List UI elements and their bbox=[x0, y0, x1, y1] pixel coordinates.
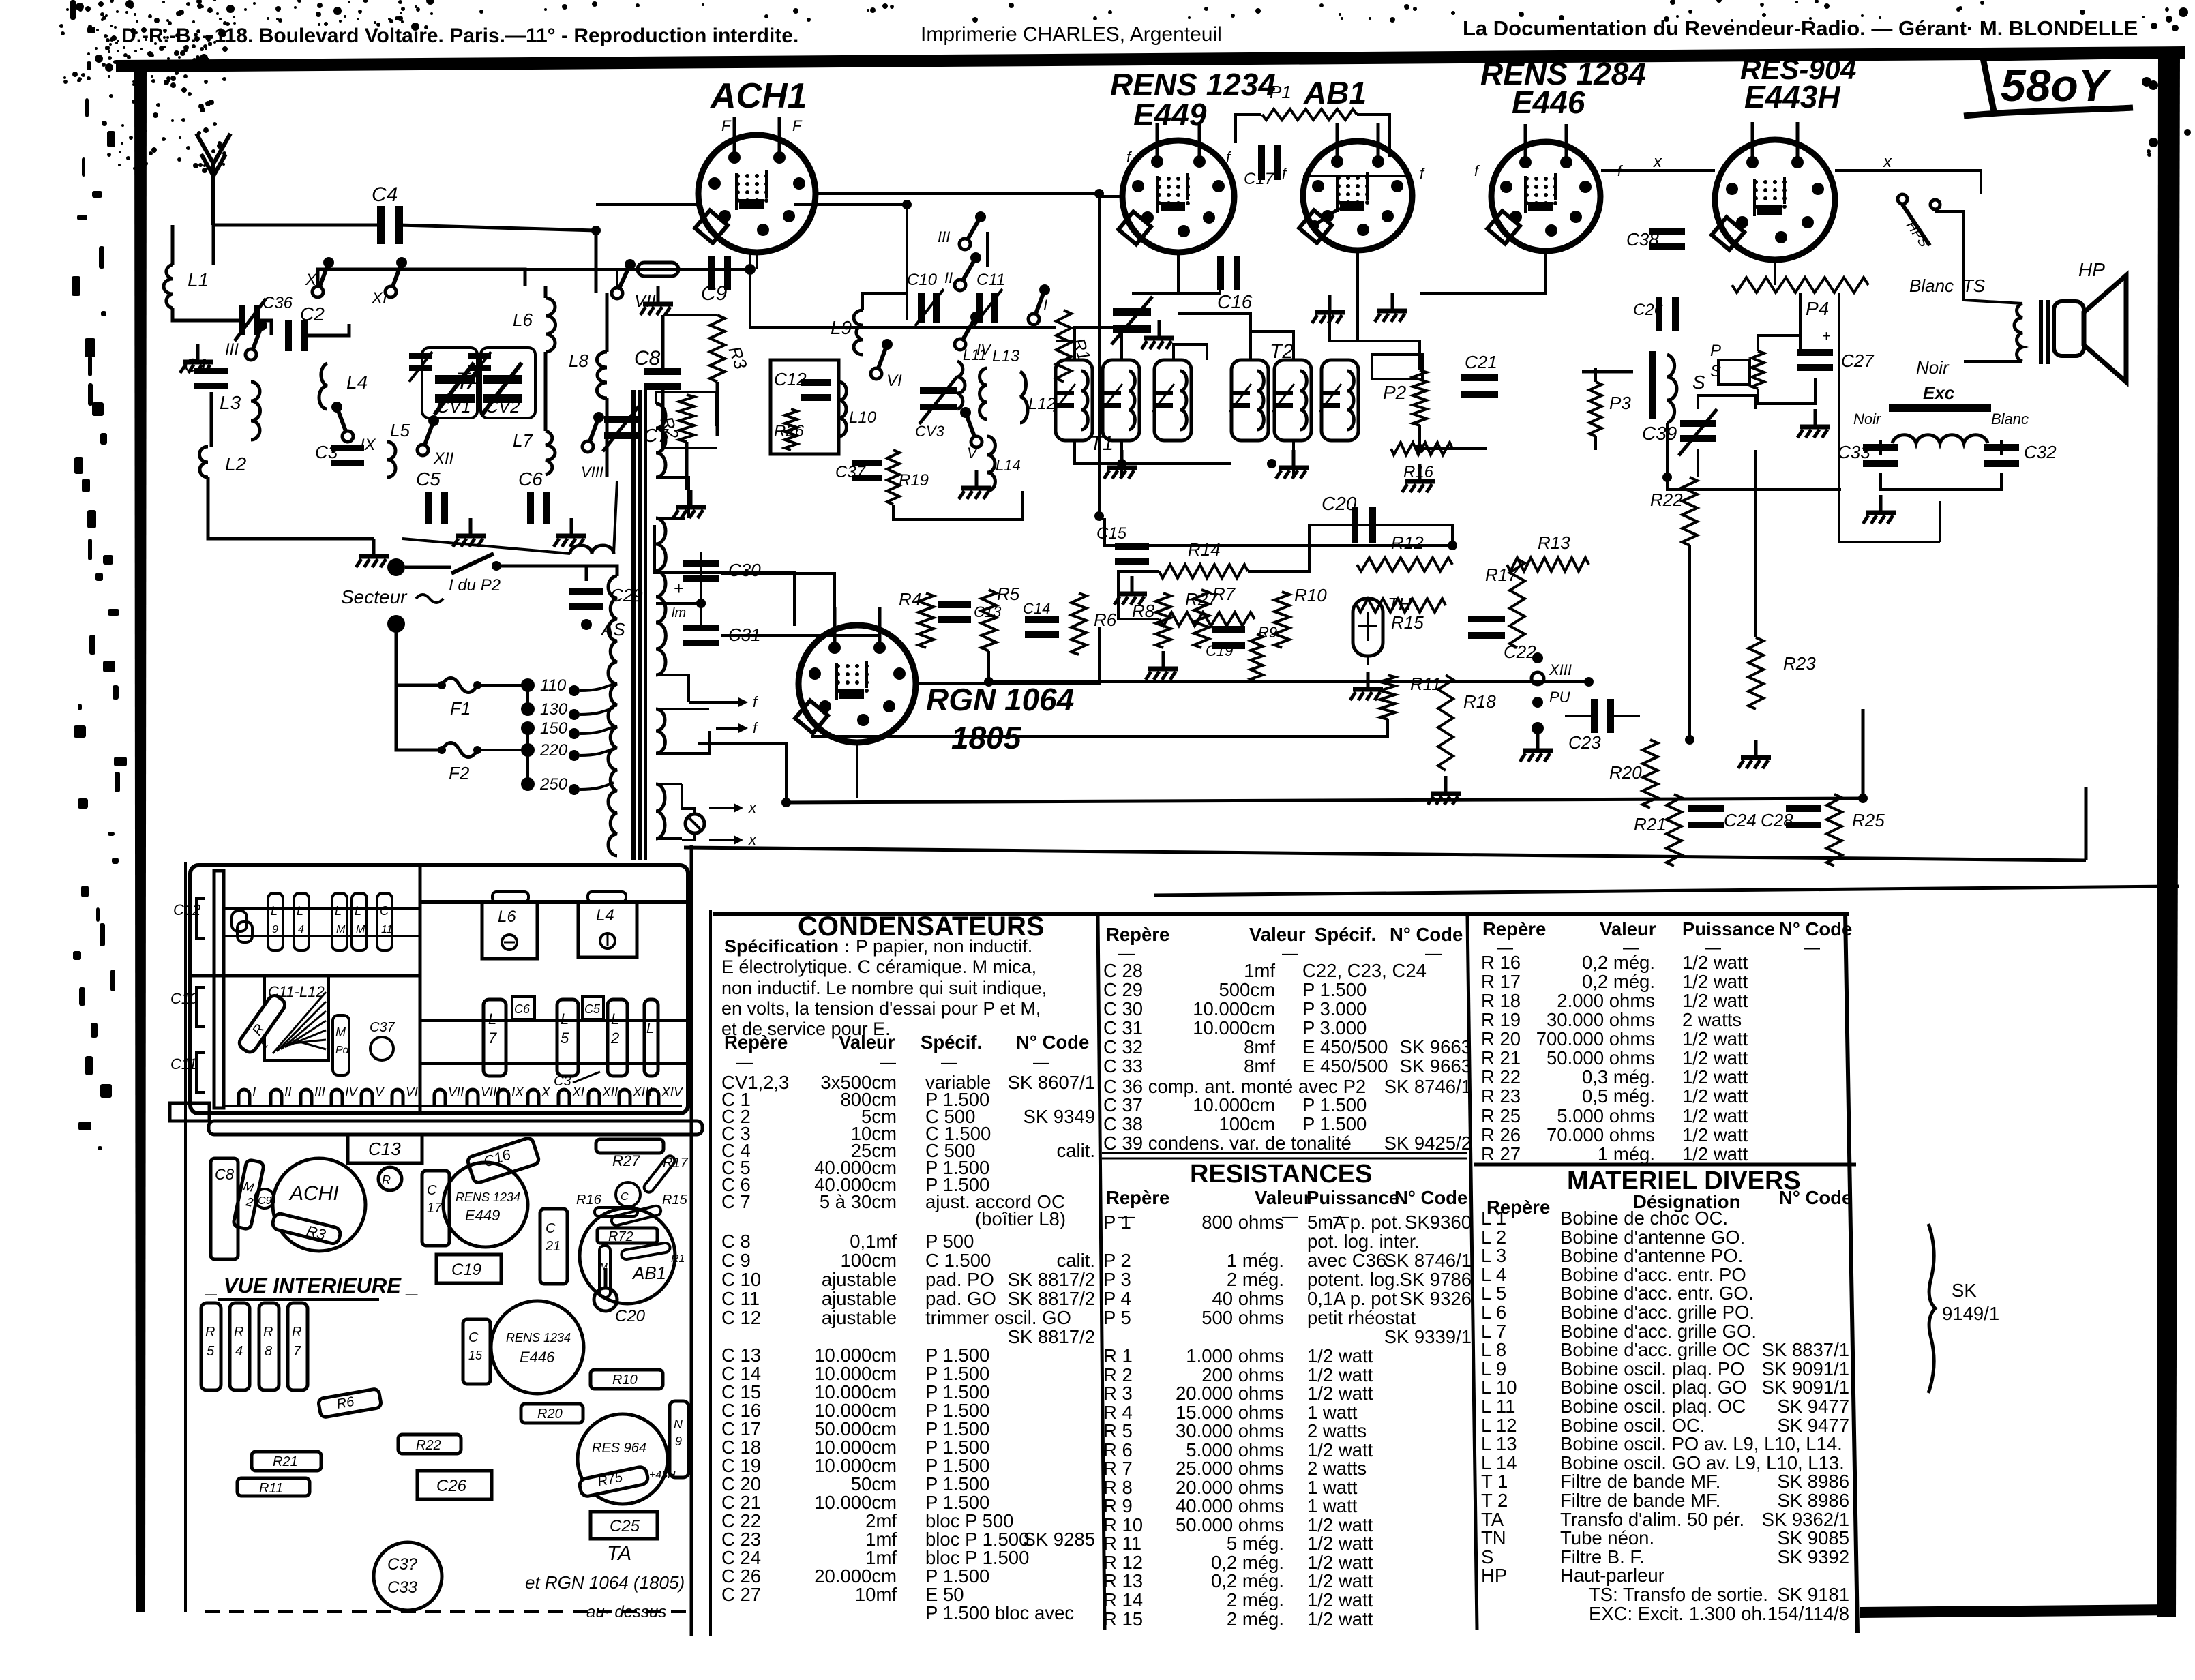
wire osc down bbox=[906, 293, 908, 320]
chassis L5 slat bbox=[557, 1000, 578, 1076]
interior C18 circle bbox=[616, 1182, 640, 1207]
interior R10 slat bbox=[591, 1370, 663, 1389]
capacitor C21 det bbox=[1461, 374, 1498, 381]
svg-text:1/2 watt: 1/2 watt bbox=[1682, 1028, 1748, 1049]
svg-text:VI: VI bbox=[886, 372, 902, 390]
svg-text:1/2 watt: 1/2 watt bbox=[1307, 1570, 1373, 1591]
svg-text:SK 9663: SK 9663 bbox=[1399, 1036, 1472, 1057]
potentiometer P2 bbox=[1413, 370, 1427, 425]
svg-text:SK 8986: SK 8986 bbox=[1777, 1471, 1849, 1492]
interior C32 C33 circle bbox=[374, 1542, 442, 1610]
resistor R19 bbox=[887, 450, 899, 505]
wire rgn plate right bbox=[721, 626, 880, 635]
svg-text:Haut-parleur: Haut-parleur bbox=[1560, 1565, 1664, 1586]
svg-text:R25: R25 bbox=[1852, 810, 1885, 830]
svg-text:Valeur: Valeur bbox=[1255, 1187, 1311, 1208]
interior R27 slat bbox=[596, 1139, 663, 1153]
ground AB1 b bbox=[1391, 293, 1394, 311]
svg-text:C2: C2 bbox=[300, 303, 325, 325]
interior C25 box bbox=[591, 1512, 657, 1539]
svg-text:5: 5 bbox=[561, 1030, 569, 1047]
svg-text:R1: R1 bbox=[671, 1253, 685, 1265]
coil L6 bbox=[546, 298, 556, 352]
svg-text:X: X bbox=[541, 1085, 551, 1100]
trimmer C36 bbox=[239, 305, 245, 335]
wire res904 S bbox=[1839, 293, 1940, 542]
wire sec mid ends bbox=[656, 517, 685, 520]
interior slat R5 bbox=[201, 1303, 221, 1390]
capacitor C28s bbox=[1786, 805, 1821, 812]
capacitor C13m bbox=[938, 601, 971, 608]
switch det bbox=[1315, 208, 1340, 225]
capacitor C4 bbox=[377, 206, 385, 244]
svg-text:15: 15 bbox=[468, 1349, 483, 1362]
svg-text:L2: L2 bbox=[225, 453, 247, 475]
bus wire detect bbox=[1105, 518, 1452, 545]
resistor R15 bbox=[1357, 599, 1446, 612]
svg-text:P 1.500: P 1.500 bbox=[1302, 1094, 1367, 1115]
svg-text:R: R bbox=[234, 1325, 243, 1340]
wire T1 T2 tops bbox=[1075, 327, 1122, 360]
svg-text:C26: C26 bbox=[1633, 301, 1664, 319]
svg-text:S: S bbox=[1692, 372, 1705, 393]
svg-text:RESISTANCES: RESISTANCES bbox=[1190, 1160, 1372, 1188]
svg-text:SK 9085: SK 9085 bbox=[1777, 1527, 1849, 1548]
coil L8 bbox=[597, 352, 607, 398]
svg-text:C 8: C 8 bbox=[721, 1231, 751, 1252]
svg-text:Noir: Noir bbox=[1916, 357, 1950, 378]
switch II osc bbox=[955, 280, 966, 290]
chassis divider vertical bbox=[419, 865, 422, 1113]
resistor R4 bbox=[919, 593, 934, 648]
svg-text:T1: T1 bbox=[1090, 432, 1114, 455]
resistor R2 bbox=[679, 395, 694, 442]
field coil bar bbox=[1889, 404, 1991, 412]
svg-text:SK9360: SK9360 bbox=[1405, 1212, 1472, 1233]
capacitor C5 bbox=[425, 492, 432, 524]
interior R20 slat bbox=[521, 1404, 583, 1423]
IF can T2 c bbox=[1322, 360, 1358, 440]
svg-text:T 1: T 1 bbox=[1481, 1471, 1508, 1492]
interior R16 wand bbox=[595, 1207, 638, 1216]
wire rens1234 bottom drop bbox=[1132, 252, 1178, 293]
svg-text:C 33: C 33 bbox=[1103, 1055, 1143, 1077]
switch XIII PU bbox=[1532, 652, 1543, 663]
svg-text:5: 5 bbox=[207, 1344, 215, 1359]
svg-text:1/2 watt: 1/2 watt bbox=[1682, 1066, 1748, 1087]
svg-text:VII: VII bbox=[448, 1085, 464, 1100]
interior R6 slat bbox=[318, 1388, 381, 1417]
svg-text:XII: XII bbox=[601, 1085, 618, 1100]
tube AB1 bbox=[1303, 141, 1412, 250]
svg-text:ACH1: ACH1 bbox=[709, 76, 807, 116]
svg-text:F1: F1 bbox=[450, 698, 471, 719]
svg-text:700.000 ohms: 700.000 ohms bbox=[1536, 1028, 1655, 1049]
svg-text:1/2 watt: 1/2 watt bbox=[1682, 1124, 1748, 1145]
switch X bbox=[312, 286, 323, 297]
capacitor C17 bbox=[1258, 145, 1265, 180]
svg-text:40 ohms: 40 ohms bbox=[1212, 1288, 1284, 1309]
wire C1 down bbox=[210, 392, 213, 447]
coil L12 bbox=[1020, 372, 1028, 423]
svg-text:2 még.: 2 még. bbox=[1227, 1589, 1284, 1610]
wire res904 top x bbox=[1664, 169, 1715, 172]
resistor R5 bbox=[981, 590, 996, 651]
wire det drop ab1 bbox=[1330, 314, 1420, 341]
svg-text:30.000 ohms: 30.000 ohms bbox=[1176, 1420, 1284, 1441]
svg-text:L10: L10 bbox=[849, 408, 877, 427]
dot PU bottom bbox=[1532, 722, 1544, 734]
svg-text:RGN 1064: RGN 1064 bbox=[926, 682, 1074, 717]
svg-text:SK 8817/2: SK 8817/2 bbox=[1008, 1269, 1095, 1290]
wire ab1 down bbox=[1356, 250, 1359, 293]
bus wire av2 bbox=[1118, 571, 1159, 619]
svg-text:R22: R22 bbox=[416, 1438, 441, 1453]
capacitor C19m bbox=[1212, 626, 1245, 633]
svg-text:1/2 watt: 1/2 watt bbox=[1682, 990, 1748, 1011]
chassis left lug bbox=[170, 1103, 209, 1121]
svg-text:R9: R9 bbox=[1258, 624, 1277, 641]
wire T1 drop bbox=[1120, 440, 1123, 477]
svg-text:R 25: R 25 bbox=[1481, 1105, 1521, 1126]
rule above RESISTANCES bbox=[1102, 1152, 1467, 1154]
svg-text:C 7: C 7 bbox=[721, 1191, 751, 1212]
svg-text:T 2: T 2 bbox=[1481, 1490, 1508, 1511]
ground TH bbox=[1367, 672, 1370, 689]
wire F1 to taps bbox=[477, 684, 525, 687]
svg-text:C11: C11 bbox=[976, 271, 1005, 289]
interior C19 box bbox=[436, 1255, 501, 1283]
box CV2 bbox=[481, 348, 535, 418]
wire S down bbox=[1666, 423, 1669, 477]
antenna bbox=[196, 134, 230, 225]
svg-text:L6: L6 bbox=[498, 907, 516, 926]
svg-text:C8: C8 bbox=[634, 347, 661, 370]
resistor R12 bbox=[1357, 558, 1452, 571]
svg-text:II: II bbox=[284, 1085, 292, 1100]
svg-text:R 9: R 9 bbox=[1103, 1495, 1133, 1516]
wire switch to primary bbox=[586, 566, 617, 576]
svg-text:Blanc: Blanc bbox=[1909, 275, 1954, 296]
svg-text:_ VUE INTERIEURE _: _ VUE INTERIEURE _ bbox=[205, 1274, 419, 1297]
svg-text:2 még.: 2 még. bbox=[1227, 1269, 1284, 1290]
svg-text:C15: C15 bbox=[1096, 524, 1127, 543]
SK 9149 brace bbox=[1928, 1224, 1935, 1393]
switch I bbox=[1028, 314, 1039, 325]
svg-text:R 14: R 14 bbox=[1103, 1589, 1143, 1610]
svg-text:C9: C9 bbox=[258, 1195, 272, 1207]
svg-text:R 20: R 20 bbox=[1481, 1028, 1521, 1049]
svg-text:Pd: Pd bbox=[335, 1045, 350, 1056]
svg-text:5 még.: 5 még. bbox=[1227, 1533, 1284, 1554]
svg-text:L12: L12 bbox=[1028, 395, 1056, 413]
svg-text:R72: R72 bbox=[608, 1229, 633, 1244]
svg-text:R5: R5 bbox=[997, 584, 1020, 604]
svg-text:2 még.: 2 még. bbox=[1227, 1608, 1284, 1630]
svg-text:L13: L13 bbox=[992, 347, 1020, 365]
svg-text:P3: P3 bbox=[1609, 393, 1631, 413]
IF can T1 c bbox=[1154, 360, 1191, 440]
svg-text:8mf: 8mf bbox=[1244, 1036, 1275, 1057]
svg-text:C 27: C 27 bbox=[721, 1584, 761, 1605]
svg-text:Bobine de choc OC.: Bobine de choc OC. bbox=[1560, 1207, 1728, 1229]
svg-text:+: + bbox=[1822, 327, 1831, 344]
svg-text:R16: R16 bbox=[1403, 463, 1434, 481]
svg-text:C24: C24 bbox=[1724, 810, 1757, 830]
svg-text:E 450/500: E 450/500 bbox=[1302, 1036, 1388, 1057]
capacitor C26 bbox=[1656, 297, 1662, 331]
potentiometer P4 bbox=[1732, 277, 1868, 292]
svg-text:SK 8837/1: SK 8837/1 bbox=[1762, 1339, 1849, 1360]
resistor R21 bbox=[1667, 794, 1682, 866]
svg-text:XI: XI bbox=[371, 289, 387, 307]
chassis L7 slat bbox=[483, 1000, 506, 1076]
wire C2 to switches bbox=[306, 324, 349, 335]
wire TA sec gnd bbox=[656, 477, 689, 518]
svg-text:AB1: AB1 bbox=[631, 1263, 666, 1283]
svg-text:1/2 watt: 1/2 watt bbox=[1682, 1105, 1748, 1126]
svg-text:2.000 ohms: 2.000 ohms bbox=[1557, 990, 1655, 1011]
wire exc down bbox=[1939, 501, 1941, 542]
ground R2 bbox=[689, 490, 693, 507]
table rule vertical left bbox=[690, 845, 693, 1636]
svg-text:58oY: 58oY bbox=[2001, 60, 2112, 110]
svg-text:C 39 condens. var. de tonalité: C 39 condens. var. de tonalité bbox=[1103, 1132, 1352, 1154]
svg-text:500 ohms: 500 ohms bbox=[1201, 1307, 1284, 1328]
switch III bbox=[245, 349, 256, 360]
capacitor C38 bbox=[1649, 228, 1685, 235]
svg-text:C37: C37 bbox=[370, 1020, 395, 1035]
wire res904 top x2 bbox=[1835, 169, 1882, 172]
wire f arrow2 bbox=[689, 701, 745, 704]
chassis L3 slat bbox=[644, 1000, 658, 1076]
svg-text:L 5: L 5 bbox=[1481, 1282, 1506, 1304]
chassis slat LM2 bbox=[332, 893, 347, 950]
svg-text:Secteur: Secteur bbox=[341, 586, 408, 607]
svg-text:C20: C20 bbox=[615, 1307, 646, 1325]
bus wire ground rise bbox=[2085, 787, 2088, 860]
svg-text:P 2: P 2 bbox=[1103, 1250, 1131, 1271]
svg-text:R 1: R 1 bbox=[1103, 1345, 1133, 1366]
svg-text:Valeur: Valeur bbox=[839, 1032, 895, 1053]
svg-text:La Documentation du Revendeur-: La Documentation du Revendeur-Radio. — G… bbox=[1463, 16, 2138, 40]
svg-text:R 17: R 17 bbox=[1481, 971, 1521, 992]
svg-text:40.000 ohms: 40.000 ohms bbox=[1176, 1495, 1284, 1516]
svg-text:C9: C9 bbox=[701, 282, 728, 305]
svg-text:P 1.500: P 1.500 bbox=[1302, 979, 1367, 1000]
chassis pin base line bbox=[225, 1105, 682, 1107]
svg-text:petit rhéostat: petit rhéostat bbox=[1307, 1307, 1416, 1328]
svg-text:C3: C3 bbox=[554, 1074, 571, 1089]
svg-text:50.000 ohms: 50.000 ohms bbox=[1547, 1047, 1655, 1068]
svg-text:R 23: R 23 bbox=[1481, 1085, 1521, 1107]
cap C31 bbox=[683, 625, 719, 631]
IF can T2 b bbox=[1274, 360, 1311, 440]
svg-text:C: C bbox=[468, 1330, 479, 1345]
svg-text:pad. PO: pad. PO bbox=[925, 1269, 994, 1290]
svg-text:R 18: R 18 bbox=[1481, 990, 1521, 1011]
wire osc bottom bbox=[893, 491, 1023, 520]
svg-text:Valeur: Valeur bbox=[1249, 924, 1306, 945]
svg-text:L1: L1 bbox=[188, 269, 209, 290]
svg-text:TS: Transfo de sortie.: TS: Transfo de sortie. bbox=[1589, 1584, 1768, 1605]
svg-text:Bobine oscil. PO av. L9, L10,: Bobine oscil. PO av. L9, L10, L14. bbox=[1560, 1433, 1842, 1454]
svg-text:R 16: R 16 bbox=[1481, 952, 1521, 973]
tube RES904 E443H bbox=[1715, 140, 1835, 260]
svg-text:500cm: 500cm bbox=[1219, 979, 1275, 1000]
fuse F1 bbox=[442, 678, 477, 693]
svg-text:20.000 ohms: 20.000 ohms bbox=[1176, 1383, 1284, 1404]
svg-text:L4: L4 bbox=[596, 906, 614, 925]
svg-text:0,1mf: 0,1mf bbox=[850, 1231, 897, 1252]
svg-text:E 450/500: E 450/500 bbox=[1302, 1055, 1388, 1077]
chassis divider left horizontal bbox=[190, 974, 420, 978]
interior C26 box bbox=[417, 1471, 492, 1499]
svg-text:P papier, non inductif.: P papier, non inductif. bbox=[856, 936, 1032, 957]
interior C8 slat bbox=[211, 1158, 238, 1259]
svg-text:C17: C17 bbox=[1244, 170, 1275, 188]
interior tube RES964 bbox=[578, 1414, 668, 1504]
coil L14 bbox=[987, 436, 995, 491]
svg-text:SK 8986: SK 8986 bbox=[1777, 1490, 1849, 1511]
chassis hatching bbox=[273, 992, 326, 1053]
svg-text:R27: R27 bbox=[612, 1152, 640, 1169]
bus wire B+ rise bbox=[1862, 709, 1865, 798]
svg-text:4: 4 bbox=[298, 924, 304, 935]
interior tube RENS1234-2 bbox=[491, 1301, 584, 1394]
bus wire det2 bbox=[1354, 525, 1452, 545]
svg-text:Repère: Repère bbox=[724, 1032, 788, 1053]
svg-text:HP: HP bbox=[2078, 259, 2105, 280]
svg-text:R10: R10 bbox=[1294, 585, 1327, 605]
svg-text:L: L bbox=[611, 1010, 619, 1027]
svg-text:TA: TA bbox=[456, 368, 483, 394]
svg-text:11: 11 bbox=[381, 924, 393, 935]
svg-text:4: 4 bbox=[235, 1344, 243, 1359]
capacitor C14 bbox=[1025, 616, 1059, 623]
svg-text:SK 9663: SK 9663 bbox=[1399, 1055, 1472, 1077]
left frame bar bbox=[134, 65, 147, 1612]
table top rule right bbox=[1154, 886, 2179, 895]
svg-text:R 19: R 19 bbox=[1481, 1009, 1521, 1030]
junction dots bbox=[745, 264, 756, 275]
right frame bar bbox=[2157, 51, 2180, 1617]
svg-text:10mf: 10mf bbox=[855, 1584, 897, 1605]
svg-text:R19: R19 bbox=[899, 471, 929, 490]
svg-text:Bobine oscil. plaq. GO: Bobine oscil. plaq. GO bbox=[1560, 1377, 1747, 1398]
svg-text:L: L bbox=[646, 1021, 654, 1036]
svg-text:L: L bbox=[355, 904, 361, 918]
wire L1 to C36 bbox=[173, 308, 240, 320]
svg-text:0,3 még.: 0,3 még. bbox=[1582, 1066, 1655, 1087]
heater arrows x bbox=[709, 807, 740, 809]
svg-text:C 31: C 31 bbox=[1103, 1017, 1143, 1038]
svg-text:1/2 watt: 1/2 watt bbox=[1307, 1345, 1373, 1366]
svg-text:L: L bbox=[561, 1010, 569, 1027]
bus wire screen bbox=[750, 252, 1056, 327]
capacitor C2 bbox=[285, 320, 292, 351]
svg-text:L3: L3 bbox=[220, 392, 241, 413]
bus wire B+ main bbox=[786, 798, 1863, 802]
svg-text:C19: C19 bbox=[451, 1261, 481, 1279]
svg-text:C1: C1 bbox=[184, 355, 209, 376]
chassis left line bbox=[184, 862, 187, 1612]
svg-text:2: 2 bbox=[610, 1030, 619, 1047]
svg-text:R22: R22 bbox=[1650, 490, 1683, 510]
svg-text:L11: L11 bbox=[963, 346, 987, 363]
svg-text:C 29: C 29 bbox=[1103, 979, 1143, 1000]
svg-text:ACHI: ACHI bbox=[288, 1182, 339, 1205]
svg-text:—: — bbox=[1425, 944, 1442, 963]
resistor R22 bbox=[1682, 477, 1697, 545]
coil L4 bbox=[319, 363, 327, 409]
interior M2 slat bbox=[233, 1159, 264, 1229]
label AS bbox=[581, 619, 592, 630]
svg-text:D.-R.-B. - 118. Boulevard Vol: D.-R.-B. - 118. Boulevard Voltaire. Pari… bbox=[121, 25, 798, 47]
rheostat P5 bbox=[1752, 351, 1764, 389]
svg-text:R23: R23 bbox=[1783, 653, 1816, 674]
resistor R25 bbox=[1827, 794, 1842, 866]
padder stack bbox=[1113, 308, 1151, 316]
ground AB1 a bbox=[1328, 295, 1332, 312]
svg-text:0,2 még.: 0,2 még. bbox=[1211, 1570, 1284, 1591]
tube RENS1284 E446 bbox=[1491, 142, 1600, 251]
svg-text:SK 8607/1: SK 8607/1 bbox=[1008, 1072, 1095, 1093]
coil L5 bbox=[387, 442, 395, 477]
switch VI bbox=[871, 368, 882, 379]
svg-text:ajustable: ajustable bbox=[822, 1288, 897, 1309]
wire antenna down bbox=[212, 225, 215, 265]
svg-text:C: C bbox=[380, 904, 389, 918]
svg-text:L14: L14 bbox=[996, 457, 1021, 474]
table rule vertical left2 bbox=[709, 910, 712, 1636]
coil L13 bbox=[980, 368, 987, 419]
svg-text:R15: R15 bbox=[1391, 612, 1424, 633]
svg-text:C19: C19 bbox=[1206, 642, 1233, 659]
svg-text:R 22: R 22 bbox=[1481, 1066, 1521, 1087]
svg-text:Repère: Repère bbox=[1106, 1187, 1169, 1208]
svg-text:I: I bbox=[1043, 297, 1047, 314]
wire P4 wiper bbox=[1799, 293, 1802, 355]
svg-text:P 1: P 1 bbox=[1103, 1212, 1131, 1233]
svg-text:R26: R26 bbox=[774, 422, 805, 440]
IF can T2 a bbox=[1231, 360, 1268, 440]
svg-text:C10: C10 bbox=[170, 990, 198, 1007]
svg-text:PU: PU bbox=[1549, 689, 1570, 706]
svg-text:5mA p. pot.: 5mA p. pot. bbox=[1307, 1212, 1402, 1233]
svg-text:9: 9 bbox=[675, 1435, 682, 1448]
svg-text:et RGN 1064 (1805): et RGN 1064 (1805) bbox=[525, 1572, 685, 1593]
svg-text:R 11: R 11 bbox=[1103, 1533, 1141, 1554]
chassis slat C114 bbox=[377, 893, 392, 950]
svg-text:C37: C37 bbox=[835, 463, 867, 481]
chassis slat LM3 bbox=[352, 893, 367, 950]
chassis right top bar bbox=[420, 900, 688, 904]
capacitor C8 bbox=[644, 368, 681, 375]
wire heater2 bbox=[656, 783, 682, 785]
svg-text:0,1A p. pot: 0,1A p. pot bbox=[1307, 1288, 1397, 1309]
wire th r11 bbox=[1367, 656, 1369, 665]
wire b+ drops bbox=[1098, 293, 1101, 516]
svg-text:R20: R20 bbox=[537, 1407, 563, 1422]
svg-text:Puissance: Puissance bbox=[1682, 918, 1775, 940]
ground C33 bbox=[1879, 495, 1883, 513]
svg-text:Puissance: Puissance bbox=[1306, 1187, 1399, 1208]
interior C13 box bbox=[348, 1135, 422, 1163]
svg-text:N° Code: N° Code bbox=[1390, 924, 1463, 945]
chassis slat L90 bbox=[268, 893, 283, 950]
svg-text:L4: L4 bbox=[346, 372, 368, 393]
